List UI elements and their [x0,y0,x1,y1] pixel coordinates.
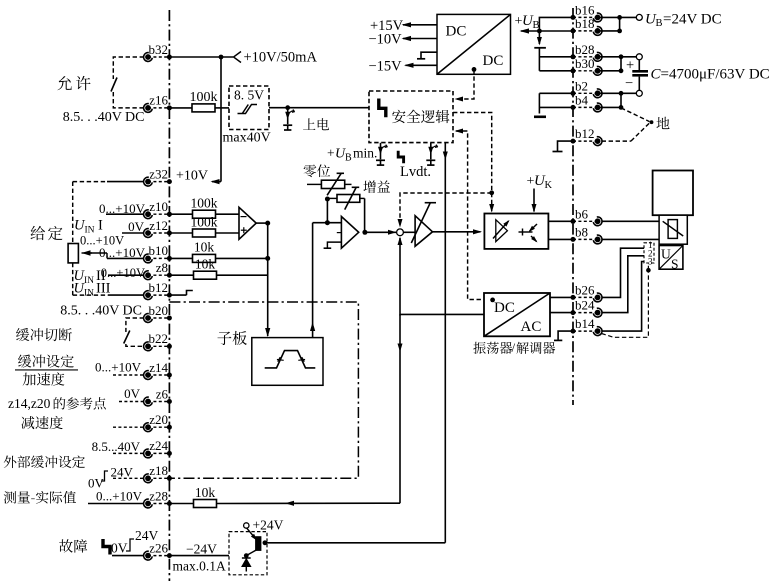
wire b16 to UB terminal [598,16,637,18]
wire U7 to feedback line [400,313,484,315]
node z6 (left terminal) [144,386,172,406]
svg-text:+: + [327,146,335,161]
wire fault line from U4 [444,143,446,543]
wire relay diag from z26 [246,549,258,556]
svg-text:−24V: −24V [186,542,217,557]
svg-text:I: I [98,218,103,234]
node pot junction [325,197,330,202]
enclosure dash-dot daughter-board [169,302,358,478]
node b10 (left terminal) [144,243,172,263]
svg-text:b28: b28 [575,42,595,57]
node z10 (left terminal) [144,199,172,219]
wire dashed into driver box [491,193,493,212]
wire z24 lead-in (dashed) [113,452,144,454]
wire z8 to R5 [169,274,193,276]
fault step symbol (thick) [103,539,110,555]
wire b28/b30 left loop [538,48,540,71]
svg-text:−: − [625,76,633,92]
wire sum to ramp (down) [267,223,269,336]
wire b32 to +10V/50mA [169,56,233,58]
wire oscillator enable (dashed) into U4 [455,129,464,134]
svg-text:0V: 0V [128,219,145,234]
svg-text:z14,z20: z14,z20 [8,396,51,411]
label 上电 (power-on) [303,118,329,130]
node dashed junction [489,190,494,195]
relay switch arm [247,528,256,539]
fraction line [15,369,78,371]
wire z12 to R3 [169,232,192,234]
terminal capacitor + circle [636,54,642,60]
node b10 sum junction [265,256,270,261]
svg-text:0...+10V: 0...+10V [101,266,145,280]
block U7 DC/AC oscillator box [484,293,550,336]
svg-text:10k: 10k [194,240,215,255]
wire ramp out to amp A3 [313,222,342,224]
step-down symbol Lvdt [398,151,403,164]
svg-text:0...+10V: 0...+10V [96,489,143,504]
node b22 (left terminal) [144,331,172,351]
svg-text:z16: z16 [149,93,168,108]
potentiometer RP2 zero [321,180,344,188]
resistor R3 100k [193,229,216,237]
node b30 (right terminal) [571,56,603,75]
earth point 地 [650,120,654,124]
switch S2 buffer cutoff (dashed loop b20-b22) [124,318,144,346]
node z14 (left terminal) [144,360,172,380]
svg-text:/: / [512,340,516,355]
svg-text:24V: 24V [135,528,159,543]
wire -10V output [403,38,437,40]
wire U6 out to b6 [548,220,573,222]
svg-text:IN: IN [84,288,94,298]
node b16 (right terminal) [571,2,603,21]
svg-text:b24: b24 [575,298,595,313]
wire R6 to feedback line [217,502,401,504]
wire b12 dashed to earth [602,140,631,142]
label 安全逻辑 (safety logic) [392,110,449,123]
svg-text:b12: b12 [149,280,169,295]
node U5 output junction [265,221,270,226]
wire z28 to R6 [169,503,194,505]
wire z26 lead-in [112,555,144,557]
dashed bottom edge UIN III [73,294,108,296]
svg-text:b4: b4 [575,92,589,107]
wire A3 output to summing node [365,231,396,233]
node b2 (right terminal) [571,78,603,97]
switch S1 enable contact (dashed loop b32-z16) [111,57,144,108]
block U6 output driver box [484,214,548,249]
svg-text:=24V DC: =24V DC [663,11,722,27]
svg-text:+: + [626,57,634,73]
comparator U2 8.5V threshold box (dashed) [229,86,269,130]
svg-text:100k: 100k [191,214,218,229]
node junction b4 [619,105,624,110]
resistor R6 10k [194,500,217,508]
node b4 (right terminal) [571,92,603,111]
node relay output junction [263,540,268,545]
node N1 summing point [397,229,404,236]
node z12 (left terminal) [144,218,172,238]
node z16 (left terminal) [144,93,172,113]
svg-text:min.: min. [353,146,377,161]
diode D1 in relay [245,556,247,572]
wire R2 to op-amp [216,213,240,215]
wire U4 out to driver (dashed) [453,113,492,191]
svg-text:z6: z6 [156,386,169,401]
node b28 (right terminal) [571,42,603,61]
wire b12-right 0V tick [558,141,574,151]
svg-text:+10V/50mA: +10V/50mA [244,50,318,66]
svg-text:Lvdt.: Lvdt. [400,164,431,180]
svg-text:z12: z12 [149,218,168,233]
potentiometer RP3 gain [327,197,337,199]
svg-text:b2: b2 [575,78,588,93]
dashed box setpoint pot left edge [72,182,74,244]
svg-text:U: U [661,247,671,262]
node z26 (left terminal) [144,540,172,560]
wire b14 0V tick [558,331,573,340]
wire U6 out to b8 [548,238,573,240]
label 缓冲设定 (ramp setting) [18,355,74,368]
wire b4 join b2 [598,106,621,108]
dashed top edge to z32 [73,181,107,183]
node b8 (right terminal) [571,224,603,243]
relay contact bar [256,537,261,551]
svg-text:0V: 0V [111,541,128,556]
svg-text:8.5. . .40V DC: 8.5. . .40V DC [63,110,145,125]
label 子板 (daughter board) [217,331,246,345]
power-on disconnect symbol 上电 [283,108,295,130]
svg-text:b6: b6 [575,206,589,221]
wire z16 to 100k [169,107,192,109]
resistor R2 100k [193,210,216,218]
wire b4 dashed to earth [621,108,650,122]
wire U3 to safety logic (dashed) [456,69,474,99]
wire R4 to sum node [216,257,268,259]
svg-text:DC: DC [494,300,515,316]
label 缓冲切断 (buffer cutoff) [16,328,72,341]
wire z28 lead-in [88,503,144,505]
svg-text:−15V: −15V [369,58,403,74]
node b18 (right terminal) [571,16,603,35]
wire feedback down to z28 line [399,314,401,503]
wire 100k to threshold box [215,107,229,109]
wire b16 left rail [539,17,573,31]
wire R5 to sum node [217,274,268,276]
svg-text:+10V: +10V [176,169,208,184]
potentiometer RP1 setpoint [68,244,78,263]
svg-text:100k: 100k [191,196,218,211]
label 振荡器/解调器 [473,342,512,354]
svg-text:b10: b10 [149,243,169,258]
wire b12 0V tick [169,294,186,296]
svg-text:8. 5V: 8. 5V [234,88,264,103]
node b12 (left terminal) [144,280,172,300]
svg-text:8.5...40V: 8.5...40V [92,439,141,454]
svg-text:b32: b32 [149,42,169,57]
wire z20 lead-in (dashed) [113,426,144,428]
wire R3 to op-amp [216,232,240,234]
wire threshold to safety logic [269,107,369,109]
wire +UK into U6 [533,189,535,212]
svg-text:b30: b30 [575,56,595,71]
wire b18 join b16 [598,30,620,32]
wire z10 lead-in [106,213,144,215]
ground bar (b2/b4) [534,116,546,119]
svg-text:z32: z32 [149,166,168,181]
svg-text:0V: 0V [124,386,141,401]
solenoid symbol [668,220,677,239]
svg-text:max40V: max40V [223,131,271,146]
svg-text:K: K [545,180,553,191]
step-down symbol in U4 [379,99,386,118]
diagonal in U3 [437,14,511,74]
terminal UB supply circle [636,14,642,20]
block A2 子板 box [252,338,323,386]
block U4 安全逻辑 box (dashed) [369,91,453,143]
wire ramp out (up) [312,223,314,338]
node shield dot [646,268,651,273]
wire b28 to capacitor [598,56,640,58]
node b6 (right terminal) [571,206,603,225]
svg-text:AC: AC [521,319,542,335]
node amp A3 input junction [325,220,330,225]
terminal capacitor - circle [636,90,642,96]
svg-text:10k: 10k [195,257,216,272]
wire U7 out to b24 [550,312,573,314]
capacitor C1 4700uF [625,57,648,91]
op-amp A3 [341,217,358,249]
node U3 sync dot [472,67,477,72]
svg-text:100k: 100k [190,90,218,105]
node U7 enable dot [490,298,495,303]
wire z8 lead-in [108,274,144,276]
wire z32 lead-in [107,181,144,183]
ground at A3 [327,242,341,248]
wire shield dashed to pins [647,263,649,270]
svg-text:b18: b18 [575,16,595,31]
wire fault to relay [265,542,445,544]
label 加速度 (acceleration) [23,372,65,385]
node b20 (left terminal) [144,303,172,323]
svg-text:b26: b26 [575,282,595,297]
svg-text:8.5. . .40V DC: 8.5. . .40V DC [60,304,142,319]
node b32 (left terminal) [144,42,172,62]
svg-text:−10V: −10V [369,32,403,48]
wire +UB down arrow to rail bar [538,31,540,44]
label 零位 (zero) [304,164,331,177]
wire pin2 to b24 [602,256,644,313]
block solenoid box [659,215,687,244]
wire b18 left to +UB arrow [521,30,573,32]
node junction b32/+10V [219,55,224,60]
wire b30 join b28 [598,70,621,72]
node z26 in relay [244,553,249,558]
node z20 (left terminal) [144,412,172,432]
node z8 (left terminal) [144,260,172,280]
diagonal in U7 [484,293,550,336]
node junction +UB [537,29,542,34]
svg-text:B: B [533,20,540,31]
svg-text:z10: z10 [149,199,168,214]
node b14 (right terminal) [571,316,603,335]
svg-text:III: III [96,281,111,297]
svg-text:0...+10V: 0...+10V [95,360,142,375]
wire b8 to solenoid [602,238,660,240]
wire dashed branch to summing node [400,193,492,226]
label 允许 (enable) [57,76,90,90]
svg-text:z14: z14 [149,360,168,375]
connector pins dashed box [644,243,654,263]
wire A4 output to driver [433,231,481,233]
node junction b28 [619,54,624,59]
svg-text:DC: DC [446,24,467,40]
wire +10V feed vertical x221 [220,57,222,182]
svg-text:IN: IN [84,276,94,286]
wire input junction up [326,199,328,223]
node z24 (left terminal) [144,438,172,458]
wire z10 to R2 [169,213,192,215]
svg-text:S: S [671,257,679,272]
wire U5 output [256,222,268,224]
wire z26 to relay [169,555,246,557]
wire b12 lead-in [108,294,144,296]
relay K1 dashed box [229,532,267,575]
wire feedback up into node [399,238,401,316]
node junction b16 [617,15,622,20]
node z18 (left terminal) [144,463,172,483]
svg-text:+24V: +24V [253,518,284,533]
current limit symbol in U6 [519,231,533,233]
block valve body [653,171,693,216]
disconnect symbol +UB min [376,143,388,165]
svg-text:z28: z28 [149,488,168,503]
resistor R1 100k (enable) [192,104,215,112]
label 外部缓冲设定 (external ramp) [4,455,85,468]
wire z6 lead-in (dashed) [119,401,144,403]
svg-text:max.0.1A: max.0.1A [173,559,226,574]
svg-text:B: B [345,153,352,164]
node A3 output junction [362,230,367,235]
svg-text:DC: DC [483,53,504,69]
svg-text:b22: b22 [149,331,169,346]
wire b2/b4 left ground loop [539,92,573,94]
node b24 (right terminal) [571,298,603,317]
0V tick on U3 [421,52,437,59]
block U8 U/S transducer box [659,246,683,270]
svg-text:b12: b12 [575,126,595,141]
svg-text:24V: 24V [111,465,134,480]
wire z12 lead-in [122,232,144,234]
step symbol z26 [126,539,134,551]
svg-text:3: 3 [648,257,653,267]
wire z14 lead-in (dashed) [113,374,144,376]
wire: right card-edge bus (dash-dot) [572,8,574,405]
svg-text:z24: z24 [149,438,168,453]
wire +15V output [403,24,437,26]
label 减速度 (deceleration) [21,416,63,429]
svg-text:z18: z18 [149,463,168,478]
wire b10 lead-in [107,257,144,259]
svg-text:10k: 10k [195,485,216,500]
wire z18 lead-in (dashed) [113,477,144,479]
hysteresis symbol in U2 [238,105,258,114]
label 给定 (setpoint) [31,226,63,240]
node junction power-on [285,105,290,110]
arrow +10V/50mA open arrowhead [234,52,242,63]
wire shield dashed b14 [602,270,649,337]
node junction b2 [619,91,624,96]
svg-text:=4700μF/63V DC: =4700μF/63V DC [661,67,770,83]
node z28 (left terminal) [144,488,172,508]
node z32 (left terminal) [144,166,172,186]
terminal +24V circle [244,523,249,528]
ramp waveform in A2 [265,351,316,368]
converter U3 DC/DC box [437,14,511,74]
svg-text:B: B [656,18,663,29]
resistor R4 10k [193,254,216,262]
svg-text:b20: b20 [149,303,169,318]
wire U7 out to b26 [550,296,573,298]
label 增益 (gain) [363,180,390,193]
wiper arrow RP1 [90,252,107,254]
wire b2 to cap minus [598,92,637,94]
variable amp symbol in U6 [496,220,508,242]
svg-text:b14: b14 [575,316,595,331]
resistor R5 10k [194,271,217,279]
disconnect symbol Lvdt [426,143,438,165]
wire b10 to R4 [169,257,193,259]
svg-text:z8: z8 [156,260,168,275]
0V rail bar (b28/b30) [534,47,546,49]
wire pin3 to b14 [602,262,644,332]
label 故障 (fault) [59,539,87,553]
op-amp A4 variable gain [415,216,432,247]
wire +10V arrow into z32 node [212,181,221,183]
wire pin1 to b26 [602,248,644,297]
svg-text:z20: z20 [149,412,168,427]
wire: left card-edge bus (dash-dot) [168,10,170,581]
label 测量-实际值 (actual value) [4,491,76,504]
op-amp U5 summing [239,207,256,239]
wire gain feedback down [364,198,366,232]
svg-text:b8: b8 [575,224,588,239]
wire -15V output [406,64,438,66]
wire b6 to solenoid [602,220,660,222]
node b12 (right terminal) [571,126,603,145]
node b26 (right terminal) [571,282,603,301]
